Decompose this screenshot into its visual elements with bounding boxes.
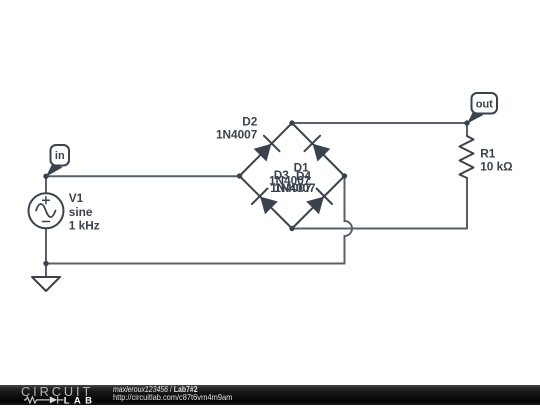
svg-text:in: in: [55, 150, 65, 162]
wire resistor top stub: [466, 123, 468, 136]
node dot bridge bottom: [289, 226, 294, 231]
svg-text:sine: sine: [69, 205, 93, 219]
wire top net: bridge top corner to out node: [292, 122, 467, 124]
flag out box: [472, 93, 498, 114]
footer text line 1: [113, 384, 198, 394]
svg-text:1N4007: 1N4007: [274, 181, 316, 195]
V1 plus sign: [43, 197, 50, 204]
flag in box: [51, 145, 70, 166]
flag in tail: [46, 164, 63, 177]
wire source bottom stub: [45, 228, 47, 263]
svg-text:1N4007: 1N4007: [216, 127, 258, 141]
wire net in: source top to bridge left corner: [46, 175, 240, 177]
node dot bridge right: [342, 173, 347, 178]
diode D1: [305, 136, 331, 162]
ground: [32, 277, 60, 291]
svg-text:10 kΩ: 10 kΩ: [480, 160, 512, 174]
bridge edge top-left: [240, 123, 293, 176]
circuitlab logo: [14, 384, 114, 406]
diode D3: [252, 189, 278, 215]
bridge edge bottom-left: [240, 176, 293, 229]
svg-text:V1: V1: [69, 191, 84, 205]
wire resistor bottom stub: [466, 178, 468, 229]
bridge edge bottom-right: [292, 176, 345, 229]
node dot bridge left: [237, 173, 242, 178]
bridge edge top-right: [292, 123, 345, 176]
wire source top stub: [45, 176, 47, 193]
voltage source V1: [29, 193, 64, 228]
wire ground stub: [45, 264, 47, 278]
node dot source top: [43, 174, 48, 179]
node dot ground: [43, 261, 48, 266]
diode D2: [254, 136, 280, 162]
svg-text:R1: R1: [480, 147, 496, 161]
svg-text:LAB: LAB: [64, 395, 97, 406]
diode D4: [306, 189, 332, 215]
node dot bridge top: [289, 120, 294, 125]
wire bottom net: bridge bottom corner to resistor bottom: [292, 228, 467, 230]
wire ground horizontal: [46, 263, 345, 265]
svg-text:out: out: [476, 98, 493, 110]
svg-text:1 kHz: 1 kHz: [69, 219, 100, 233]
node dot out: [464, 120, 469, 125]
wire ground vertical with hop over bottom wire: [345, 176, 353, 264]
footer bar: [0, 385, 540, 405]
flag out tail: [467, 111, 484, 123]
footer text line 2: [113, 392, 232, 402]
V1 minus sign: [43, 221, 50, 223]
resistor R1: [460, 136, 474, 178]
